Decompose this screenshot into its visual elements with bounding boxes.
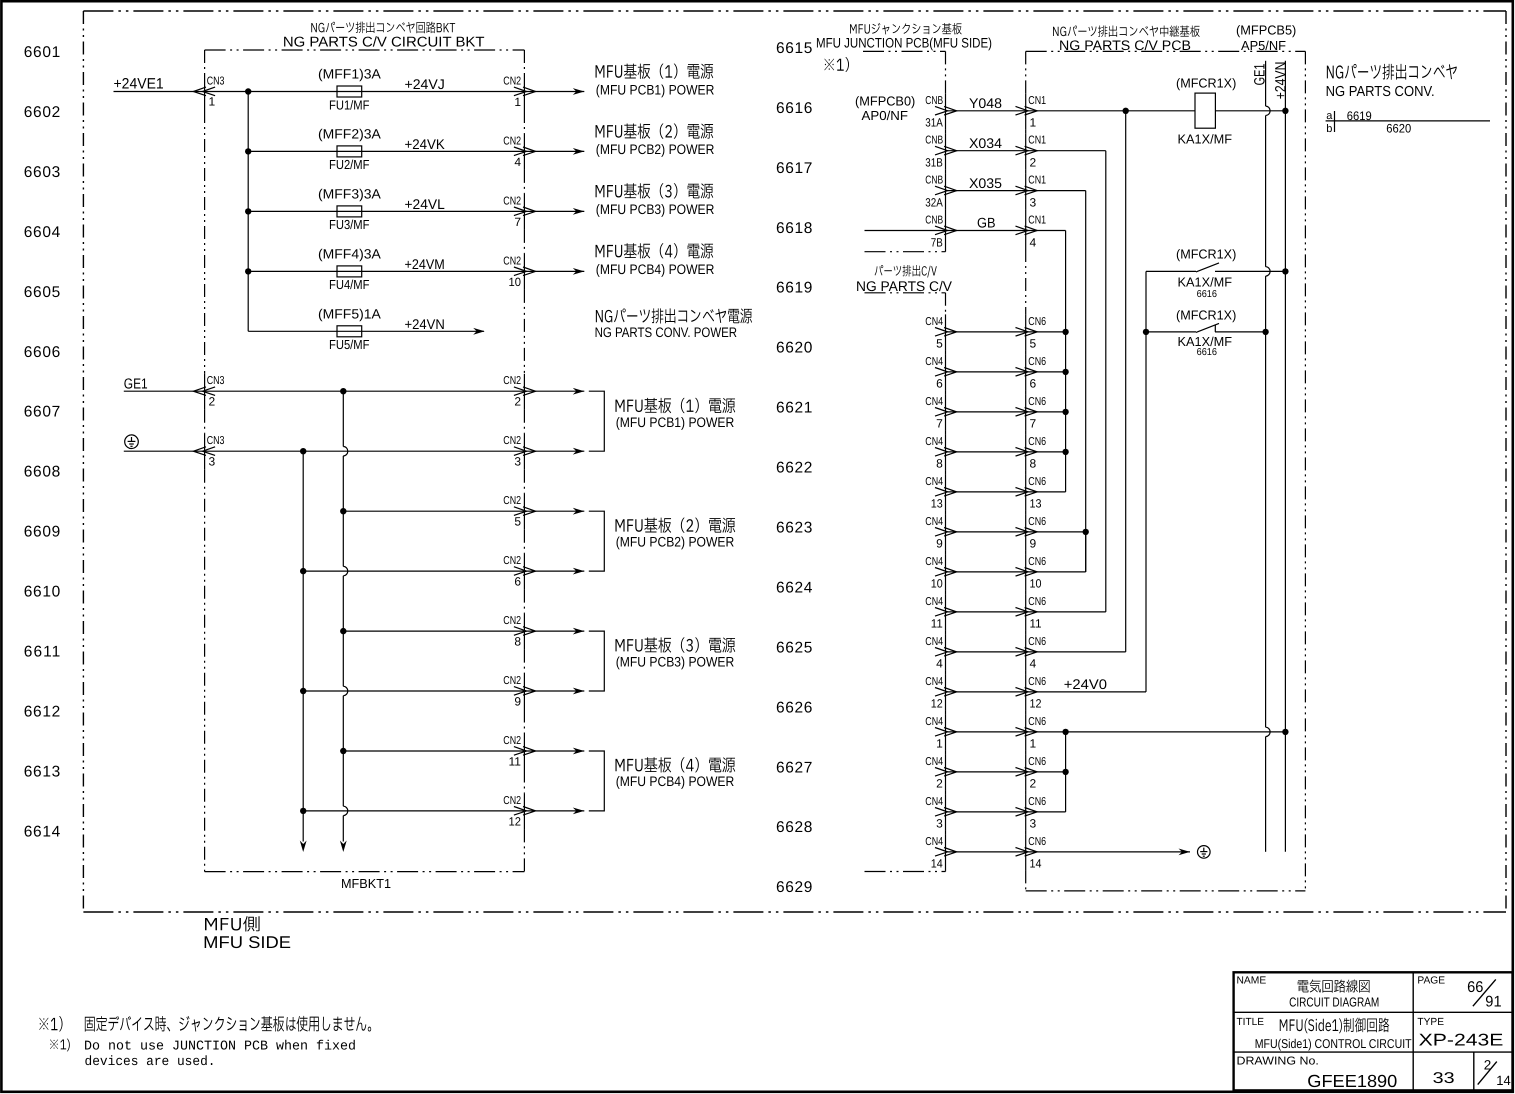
connector CN2 pin 4	[503, 135, 535, 168]
stub CN6-13	[1026, 491, 1066, 493]
svg-text:CNB: CNB	[925, 175, 943, 187]
svg-text:6616: 6616	[1197, 289, 1218, 300]
connector CN4 pin 8	[925, 436, 956, 471]
svg-text:devices are used.: devices are used.	[85, 1055, 216, 1070]
svg-text:KA1X/MF: KA1X/MF	[1178, 131, 1233, 146]
svg-text:2: 2	[209, 394, 216, 408]
svg-text:5: 5	[936, 337, 943, 351]
svg-text:X035: X035	[969, 175, 1002, 191]
svg-text:7: 7	[936, 417, 943, 431]
svg-text:CN6: CN6	[1028, 476, 1046, 488]
svg-text:66: 66	[1467, 979, 1483, 996]
title block texts	[1237, 975, 1512, 1090]
wire fuse row +24VK	[248, 150, 584, 152]
connector CN3 pin 3	[193, 435, 224, 468]
connector CN6 pin 14	[1016, 836, 1047, 871]
wire fuse row +24VL	[248, 210, 584, 212]
svg-text:CN1: CN1	[1028, 95, 1046, 107]
svg-text:CN1: CN1	[1028, 175, 1046, 187]
svg-text:6619: 6619	[776, 280, 812, 297]
svg-text:CN2: CN2	[503, 435, 521, 447]
svg-text:CN4: CN4	[925, 316, 943, 328]
svg-text:CN2: CN2	[503, 76, 521, 88]
wire GB	[865, 230, 1027, 232]
svg-text:6620: 6620	[1386, 122, 1411, 136]
stub CN6-4	[1026, 651, 1126, 653]
svg-text:PAGE: PAGE	[1417, 975, 1445, 986]
svg-text:NG PARTS C/V PCB: NG PARTS C/V PCB	[1059, 38, 1191, 53]
vertical bus earth branch	[302, 451, 304, 841]
svg-text:CN2: CN2	[503, 195, 521, 207]
label lbl-pair2-jp "MFU基板（2）電源"	[615, 518, 735, 533]
svg-text:4: 4	[514, 155, 521, 169]
svg-text:CN4: CN4	[925, 716, 943, 728]
svg-text:AP5/NF: AP5/NF	[1241, 38, 1286, 53]
connector CN6 pin 10	[1016, 556, 1047, 591]
svg-text:6601: 6601	[24, 44, 60, 61]
svg-text:13: 13	[1030, 497, 1042, 511]
fuse FU4/MF (MFF4)	[337, 266, 362, 277]
svg-text:CN4: CN4	[925, 796, 943, 808]
connector CN4 pin 9	[925, 516, 956, 551]
label lbl-pcb3-jp "MFU基板（3）電源"	[596, 183, 714, 198]
label note-ref2-jp "※1)"	[50, 1039, 70, 1052]
fuse FU3/MF (MFF3)	[337, 206, 362, 217]
svg-text:3: 3	[209, 454, 216, 468]
connector CN2 pin 9	[503, 675, 535, 708]
wire earth row	[124, 450, 585, 452]
connector CN6 pin 11	[1016, 596, 1047, 631]
svg-text:6605: 6605	[24, 284, 60, 301]
label note-jp "固定デバイス時、ジャンクション基板は使用しません。"	[85, 1016, 371, 1032]
svg-text:FU2/MF: FU2/MF	[329, 157, 370, 172]
svg-text:CN4: CN4	[925, 596, 943, 608]
svg-text:7: 7	[514, 215, 521, 229]
svg-text:(MFPCB5): (MFPCB5)	[1236, 23, 1296, 38]
svg-text:(MFF2)3A: (MFF2)3A	[318, 126, 381, 141]
svg-text:CN6: CN6	[1028, 316, 1046, 328]
svg-text:6622: 6622	[776, 460, 812, 477]
svg-text:1: 1	[1030, 737, 1037, 751]
svg-text:(MFU PCB4) POWER: (MFU PCB4) POWER	[616, 774, 735, 789]
label mfu-side-jp "MFU側"	[205, 916, 260, 931]
svg-text:6621: 6621	[776, 400, 812, 417]
connector CN2 pin 5	[503, 495, 535, 528]
svg-text:CN2: CN2	[503, 255, 521, 267]
svg-text:2: 2	[1030, 156, 1037, 170]
svg-text:MFU SIDE: MFU SIDE	[203, 933, 291, 952]
wire CN4-1 to CN6-1	[946, 731, 1027, 733]
svg-text:2: 2	[1030, 777, 1037, 791]
connector CN2 pin 1	[503, 76, 535, 109]
connector CN6 pin 7	[1016, 396, 1047, 431]
svg-text:8: 8	[936, 457, 943, 471]
wire Y048 to relay coil and +24VN	[1026, 110, 1195, 112]
svg-text:31B: 31B	[925, 156, 943, 170]
middle row numbers 6615-6629	[776, 40, 813, 896]
svg-text:6610: 6610	[24, 584, 61, 601]
wire CN2 pin 5 from GE1 bus	[343, 510, 584, 512]
svg-text:11: 11	[931, 617, 943, 631]
svg-text:6617: 6617	[776, 160, 812, 177]
svg-text:7B: 7B	[931, 235, 943, 249]
svg-text:FU1/MF: FU1/MF	[329, 97, 370, 112]
svg-text:(MFU PCB1) POWER: (MFU PCB1) POWER	[596, 82, 715, 97]
connector CN1 pin 4	[1016, 215, 1047, 250]
title block	[1234, 972, 1513, 1090]
svg-text:(MFF3)3A: (MFF3)3A	[318, 186, 381, 201]
svg-text:+24V0: +24V0	[1064, 676, 1107, 692]
svg-text:CN4: CN4	[925, 676, 943, 688]
svg-text:+24VE1: +24VE1	[114, 76, 164, 93]
svg-text:CN6: CN6	[1028, 636, 1046, 648]
arrow to MFU PCB3 power (a)	[573, 628, 585, 635]
node junction fuse feed row 1	[245, 88, 251, 94]
stub CN6-11	[1026, 611, 1106, 613]
svg-text:CN4: CN4	[925, 756, 943, 768]
wire CN2 pin 6 from earth bus	[303, 570, 584, 572]
svg-text:+24VN: +24VN	[405, 316, 445, 332]
wire CN4-4 to CN6-4	[946, 651, 1027, 653]
box MFU JUNCTION PCB lower part (NG PARTS C/V side)	[865, 293, 946, 872]
relay coil KA1X/MF (MFCR1X)	[1195, 93, 1215, 128]
label note-jp-ref "※1）"	[39, 1016, 62, 1031]
connector CN4 pin 7	[925, 396, 956, 431]
svg-text:CN6: CN6	[1028, 756, 1046, 768]
earth symbol (protective earth, right)	[1198, 846, 1211, 859]
connector CN6 pin 13	[1016, 476, 1047, 511]
svg-text:(MFCR1X): (MFCR1X)	[1176, 247, 1236, 262]
svg-text:CN4: CN4	[925, 396, 943, 408]
MFU SIDE boundary frame (dash-dot)	[83, 11, 1506, 912]
svg-text:6613: 6613	[24, 763, 60, 780]
wire fuse row +24VJ	[114, 91, 585, 93]
svg-text:6604: 6604	[24, 224, 61, 241]
connector CN6 pin 8	[1016, 436, 1047, 471]
svg-text:AP0/NF: AP0/NF	[862, 108, 909, 123]
wire fuse row +24VM	[248, 270, 584, 272]
arrow to MFU PCB2 power	[573, 148, 585, 155]
fuse FU5/MF (MFF5)	[337, 326, 362, 337]
connector CN4 pin 4	[925, 636, 956, 671]
arrow to MFU PCB2 power (b)	[573, 568, 585, 575]
wire CN4-13 to CN6-13	[946, 491, 1027, 493]
connector CN4 pin 11	[925, 596, 956, 631]
svg-text:Y048: Y048	[969, 95, 1002, 111]
svg-text:FU3/MF: FU3/MF	[329, 217, 370, 232]
svg-text:(MFCR1X): (MFCR1X)	[1176, 308, 1236, 323]
svg-text:CN6: CN6	[1028, 596, 1046, 608]
svg-text:1: 1	[936, 737, 943, 751]
svg-text:CNB: CNB	[925, 215, 943, 227]
arrow CN6-14 earth	[1179, 849, 1191, 856]
stub CN6-10	[1026, 571, 1086, 573]
earth symbol (protective earth, left)	[125, 435, 139, 449]
stub CN6-9	[1026, 531, 1086, 533]
svg-text:+24VN: +24VN	[1273, 62, 1290, 100]
svg-text:33: 33	[1433, 1070, 1455, 1087]
svg-text:GE1: GE1	[1252, 64, 1269, 86]
vertical X035 net pins 9-10	[1085, 532, 1087, 572]
svg-text:CN6: CN6	[1028, 556, 1046, 568]
wire X035	[946, 190, 1027, 192]
svg-text:CN4: CN4	[925, 356, 943, 368]
svg-text:6616: 6616	[776, 100, 812, 117]
junction vertical feed from +24VE1 to fuses	[247, 92, 249, 332]
svg-text:CN4: CN4	[925, 556, 943, 568]
connector CN6 pin 9	[1016, 516, 1047, 551]
wire X035 to CN6 pin 10 (vertical)	[1026, 190, 1086, 192]
wire CN4-8 to CN6-8	[946, 451, 1027, 453]
connector CN6 pin 2	[1016, 756, 1047, 791]
svg-text:TITLE: TITLE	[1237, 1017, 1265, 1028]
vertical GE1 net pins 1-3	[1065, 732, 1067, 812]
arrow to MFU PCB3 power	[573, 208, 585, 215]
node junction fuse feed row 3	[245, 208, 251, 214]
svg-text:5: 5	[514, 515, 521, 529]
fuse FU2/MF (MFF2)	[337, 146, 362, 157]
svg-text:GE1: GE1	[124, 376, 148, 392]
connector CN2 pin 11	[503, 735, 535, 768]
svg-text:CN2: CN2	[503, 795, 521, 807]
vertical bus GE1 branch	[342, 391, 344, 446]
connector CNB pin 31B	[925, 135, 956, 170]
wire fuse row +24VN	[248, 330, 484, 332]
vertical +24V0 bus (contacts to CN6 pin 12)	[1145, 271, 1147, 692]
svg-text:6625: 6625	[776, 639, 812, 656]
svg-text:(MFU PCB2) POWER: (MFU PCB2) POWER	[596, 142, 715, 157]
wire CN4-11 to CN6-11	[946, 611, 1027, 613]
wire CN4-12 to CN6-12	[946, 691, 1027, 693]
connector CN6 pin 6	[1016, 356, 1047, 391]
svg-text:CN3: CN3	[207, 375, 225, 387]
svg-text:9: 9	[936, 537, 943, 551]
svg-text:6614: 6614	[24, 823, 61, 840]
svg-text:(MFU PCB3) POWER: (MFU PCB3) POWER	[616, 654, 735, 669]
wire CN4-2 to CN6-2	[946, 771, 1027, 773]
node junction fuse feed row 4	[245, 268, 251, 274]
connector CNB pin 7B	[925, 215, 956, 250]
bracket pair MFU PCB1	[589, 391, 605, 451]
svg-text:TYPE: TYPE	[1417, 1017, 1444, 1028]
stub CN6-8	[1026, 451, 1066, 453]
svg-text:CN6: CN6	[1028, 676, 1046, 688]
svg-text:2: 2	[936, 777, 943, 791]
svg-text:(MFU PCB1) POWER: (MFU PCB1) POWER	[616, 415, 735, 430]
stub CN6-3	[1026, 811, 1066, 813]
connector CN4 pin 3	[925, 796, 956, 831]
arrow to MFU PCB1 power	[573, 88, 585, 95]
wire X034 to CN6 pin 11 (vertical)	[1026, 150, 1106, 152]
wire CN4-14 to CN6-14	[946, 851, 1027, 853]
connector CN4 pin 13	[925, 476, 956, 511]
wire CN2 pin 11 from GE1 bus	[343, 750, 584, 752]
svg-text:+24VL: +24VL	[405, 196, 446, 212]
svg-text:(MFF1)3A: (MFF1)3A	[318, 67, 381, 82]
node contact2 at GE1 bus	[1262, 329, 1268, 335]
wire CN4-3 to CN6-3	[946, 811, 1027, 813]
node junction contact bus at 6620	[1143, 329, 1149, 335]
svg-text:CN2: CN2	[503, 735, 521, 747]
wire CN4-6 to CN6-6	[946, 371, 1027, 373]
label tb-title-jp "MFU(Side1)制御回路"	[1280, 1018, 1390, 1034]
wire CN4-7 to CN6-7	[946, 411, 1027, 413]
svg-text:12: 12	[509, 814, 522, 828]
destination reference a/b 6619 6620 (NG parts conveyor)	[1326, 109, 1490, 135]
arrow to MFU PCB1 power (a)	[573, 388, 585, 395]
svg-text:14: 14	[1030, 857, 1042, 871]
svg-text:6628: 6628	[776, 819, 812, 836]
label lbl-ngconv-jp "NGパーツ排出コンベヤ電源"	[596, 308, 752, 323]
svg-text:CN6: CN6	[1028, 396, 1046, 408]
label lbl-pcb4-jp "MFU基板（4）電源"	[596, 243, 714, 258]
svg-text:CN4: CN4	[925, 516, 943, 528]
svg-text:MFU(Side1) CONTROL CIRCUIT: MFU(Side1) CONTROL CIRCUIT	[1255, 1036, 1412, 1051]
bus +24VN vertical	[1284, 61, 1286, 852]
connector CN6 pin 3	[1016, 796, 1047, 831]
svg-text:CN2: CN2	[503, 375, 521, 387]
connector CN6 pin 1	[1016, 716, 1047, 751]
svg-text:CN4: CN4	[925, 436, 943, 448]
label lbl-pcb1-jp "MFU基板（1）電源"	[596, 64, 714, 79]
svg-text:GFEE1890: GFEE1890	[1307, 1071, 1397, 1091]
connector CN1 pin 3	[1016, 175, 1047, 210]
svg-text:6608: 6608	[24, 464, 60, 481]
arrow +24VN to NG parts conveyor power	[473, 328, 485, 335]
svg-text:+24VJ: +24VJ	[405, 76, 445, 92]
wire X034	[946, 150, 1027, 152]
svg-text:+24VM: +24VM	[405, 256, 445, 272]
node junction GE1 at row 6607	[340, 388, 346, 394]
svg-text:91: 91	[1485, 993, 1501, 1010]
wire CN2 pin 9 from earth bus	[303, 690, 584, 692]
svg-text:3: 3	[936, 817, 943, 831]
label title-junc-jp "MFUジャンクション基板"	[850, 23, 962, 35]
svg-text:Do not use JUNCTION PCB when f: Do not use JUNCTION PCB when fixed	[84, 1039, 356, 1054]
node junction Y048 branch	[1123, 108, 1129, 114]
wire CN2 pin 12 from earth bus	[303, 810, 584, 812]
relay contact KA1X/MF row 6620 (with bar)	[1146, 323, 1266, 332]
vertical Y048 branch to CN6 pin 4	[1125, 111, 1127, 652]
svg-text:12: 12	[931, 697, 943, 711]
connector CN2 pin 6	[503, 555, 535, 588]
label lbl-partscv-jp "パーツ排出C/V"	[875, 265, 937, 278]
svg-text:1: 1	[1030, 116, 1037, 130]
wire GE1	[124, 390, 585, 392]
svg-text:XP-243E: XP-243E	[1419, 1031, 1504, 1050]
connector CN4 pin 6	[925, 356, 956, 391]
svg-text:CNB: CNB	[925, 95, 943, 107]
svg-text:CN6: CN6	[1028, 356, 1046, 368]
svg-text:CN2: CN2	[503, 675, 521, 687]
bus GE1 vertical	[1265, 61, 1267, 106]
svg-text:6616: 6616	[1197, 347, 1218, 358]
svg-text:32A: 32A	[925, 195, 943, 209]
svg-text:CN6: CN6	[1028, 836, 1046, 848]
svg-text:(MFF5)1A: (MFF5)1A	[318, 306, 381, 321]
wire Y048	[946, 110, 1027, 112]
connector CN4 pin 5	[925, 316, 956, 351]
svg-text:6611: 6611	[24, 644, 60, 661]
svg-text:6620: 6620	[776, 340, 813, 357]
svg-text:6618: 6618	[776, 220, 812, 237]
svg-text:31A: 31A	[925, 116, 943, 130]
svg-text:10: 10	[931, 577, 943, 591]
svg-text:NG PARTS C/V CIRCUIT BKT: NG PARTS C/V CIRCUIT BKT	[283, 35, 485, 51]
svg-text:DRAWING No.: DRAWING No.	[1237, 1055, 1319, 1067]
connector CN3 pin 2	[193, 375, 224, 408]
svg-text:GB: GB	[977, 215, 996, 231]
left row numbers 6601-6614	[24, 44, 61, 840]
box MFU JUNCTION PCB upper part (MFPCB0 side)	[863, 51, 946, 251]
connector CN2 pin 8	[503, 615, 535, 648]
svg-text:6609: 6609	[24, 524, 60, 541]
wire CN6-1 to +24VN bus	[1026, 731, 1285, 733]
svg-text:b: b	[1326, 123, 1332, 135]
svg-text:CN2: CN2	[503, 495, 521, 507]
svg-text:6: 6	[514, 575, 521, 589]
label lbl-ngconv2-jp "NGパーツ排出コンベヤ"	[1327, 64, 1457, 80]
stub CN6-12 (+24V0)	[1026, 691, 1146, 693]
svg-text:2: 2	[514, 395, 521, 409]
connector CN4 pin 1	[925, 716, 956, 751]
connector CN4 pin 10	[925, 556, 956, 591]
svg-text:4: 4	[936, 657, 943, 671]
svg-text:CN6: CN6	[1028, 516, 1046, 528]
label lbl-pair4-jp "MFU基板（4）電源"	[615, 757, 735, 772]
svg-text:(MFU PCB2) POWER: (MFU PCB2) POWER	[616, 535, 735, 550]
svg-text:14: 14	[1496, 1073, 1511, 1088]
connector CN6 pin 12	[1016, 676, 1047, 711]
stub CN6-5	[1026, 331, 1066, 333]
svg-text:6: 6	[936, 377, 943, 391]
svg-text:6619: 6619	[1347, 109, 1372, 123]
svg-text:FU5/MF: FU5/MF	[329, 337, 370, 352]
bracket pair MFU PCB4	[589, 751, 605, 811]
label tb-name-jp "電気回路線図"	[1298, 979, 1370, 992]
wire CN4-5 to CN6-5	[946, 331, 1027, 333]
svg-text:(MFPCB0): (MFPCB0)	[855, 94, 915, 109]
svg-text:1: 1	[209, 95, 216, 109]
connector CN2 pin 2	[503, 375, 535, 408]
svg-text:14: 14	[931, 857, 943, 871]
connector CNB pin 32A	[925, 175, 956, 210]
relay contact KA1X/MF row 6619 (NO)	[1146, 263, 1285, 272]
svg-text:CNB: CNB	[925, 135, 943, 147]
bracket pair MFU PCB2	[589, 511, 605, 571]
svg-text:8: 8	[514, 635, 521, 649]
svg-text:6626: 6626	[776, 699, 812, 716]
connector CN2 pin 10	[503, 255, 535, 288]
label lbl-pair1-jp "MFU基板（1）電源"	[615, 398, 735, 413]
connector CNB pin 31A	[925, 95, 956, 130]
svg-text:X034: X034	[969, 135, 1002, 151]
wire CN4-10 to CN6-10	[946, 571, 1027, 573]
svg-text:CN4: CN4	[925, 476, 943, 488]
svg-text:CN1: CN1	[1028, 135, 1046, 147]
svg-text:CN2: CN2	[503, 615, 521, 627]
svg-text:(MFCR1X): (MFCR1X)	[1176, 76, 1236, 91]
svg-text:KA1X/MF: KA1X/MF	[1178, 275, 1233, 290]
arrow to MFU PCB1 power (b)	[573, 448, 585, 455]
wire GB to CN6 pins 5-8,13 (vertical)	[1026, 230, 1066, 232]
svg-text:CN3: CN3	[207, 435, 225, 447]
svg-text:5: 5	[1030, 337, 1037, 351]
connector CN3 pin 1 (+24VE1 input)	[193, 76, 224, 109]
svg-text:(MFU PCB3) POWER: (MFU PCB3) POWER	[596, 202, 715, 217]
svg-text:CN4: CN4	[925, 636, 943, 648]
svg-text:12: 12	[1030, 697, 1042, 711]
